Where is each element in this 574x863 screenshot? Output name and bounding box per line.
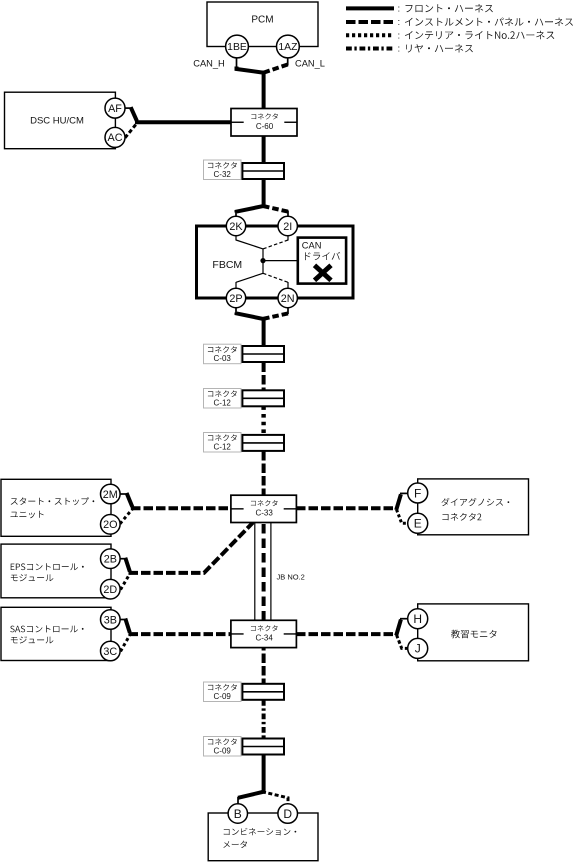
CAN driver X mark <box>315 265 332 280</box>
connector C-03 symbol <box>242 346 284 362</box>
pin E <box>408 513 428 533</box>
svg-text:2D: 2D <box>103 584 117 596</box>
FBCM 2K inner stub <box>235 235 237 241</box>
svg-text:AC: AC <box>108 132 123 144</box>
pin 2O <box>101 515 121 535</box>
PCM box <box>207 2 318 47</box>
wire 3B stub <box>121 619 127 621</box>
pin B <box>228 804 247 823</box>
label C-12 konekuta <box>208 434 237 441</box>
DSC HU/CM box <box>5 92 116 149</box>
diagnosis connector box <box>418 479 529 535</box>
wire B branch <box>238 792 265 798</box>
training monitor box <box>418 604 529 661</box>
svg-text:PCM: PCM <box>251 14 273 25</box>
SAS text line1 <box>10 625 83 632</box>
svg-text:C-12: C-12 <box>214 398 232 407</box>
wire split to 2K <box>237 206 266 213</box>
legend rear harness text <box>406 44 473 52</box>
FBCM center line <box>262 249 264 274</box>
wire H stub <box>400 618 408 620</box>
label box C-03 <box>204 344 242 364</box>
wire 2I stub <box>287 211 289 218</box>
connector C-32 symbol <box>242 163 284 179</box>
label C-03 konekuta <box>208 346 237 353</box>
svg-text::: : <box>398 17 401 28</box>
legend interior light text <box>405 31 554 39</box>
legend interior light line <box>346 33 394 37</box>
FBCM 2N inner stub <box>287 282 289 289</box>
svg-text:2P: 2P <box>229 293 242 305</box>
FBCM node to CAN driver <box>263 260 298 262</box>
svg-text:B: B <box>234 807 242 821</box>
SAS text line2 <box>11 636 54 643</box>
wire junction to C-60 <box>262 71 266 111</box>
pin 2B <box>101 549 121 569</box>
legend instrument panel line <box>346 20 394 24</box>
CAN driver jp text <box>305 252 340 260</box>
pin 2K <box>226 216 245 235</box>
pin 1AZ <box>277 35 300 58</box>
wire C-34 to C-09 dashed <box>262 648 266 684</box>
wire 2O branch dotted <box>120 509 133 524</box>
label C-32 konekuta <box>208 162 237 169</box>
wire CAN_L branch dashed <box>264 65 288 73</box>
pin 3B <box>101 610 121 630</box>
svg-text::: : <box>398 44 401 55</box>
combination meter box <box>208 813 318 861</box>
label C-09 konekuta <box>208 684 237 691</box>
wire 2B stub <box>121 558 127 560</box>
pin H <box>408 609 428 629</box>
wire 3C branch dotted <box>121 635 131 652</box>
svg-text:C-33: C-33 <box>255 509 273 518</box>
combi text line1 <box>224 828 297 836</box>
pin J <box>408 638 428 658</box>
wire AC branch dashed <box>125 123 138 138</box>
JB channel right <box>270 522 272 621</box>
label box C-12 <box>204 433 242 453</box>
svg-text:CAN: CAN <box>302 240 322 250</box>
svg-text:C-09: C-09 <box>214 746 232 755</box>
connector C-12 symbol <box>242 435 284 451</box>
wire H branch <box>396 620 401 636</box>
FBCM 2I inner stub <box>287 235 289 241</box>
svg-text:C-03: C-03 <box>214 354 232 363</box>
CAN driver box <box>298 238 346 284</box>
training monitor text <box>451 630 497 639</box>
wire DSC to C-60 <box>135 120 232 124</box>
wire 2M branch <box>127 493 133 507</box>
diagnosis text line1 <box>442 498 510 506</box>
wire SAS to C-34 dashed <box>129 632 232 636</box>
connector C-09 symbol <box>242 739 284 755</box>
svg-text:D: D <box>283 807 292 821</box>
wire C-12 to C-12 dotted <box>261 406 265 435</box>
C-60 konekuta text <box>251 113 278 119</box>
label box C-32 <box>204 160 242 180</box>
wire 2N stub <box>287 307 289 314</box>
label C-09 konekuta <box>208 738 237 745</box>
svg-text:E: E <box>414 517 422 531</box>
wire C-09 to junction <box>262 754 266 793</box>
svg-text:C-12: C-12 <box>214 442 232 451</box>
FBCM inner left bottom <box>236 273 263 282</box>
svg-text:2O: 2O <box>103 519 117 531</box>
wire C-60 to C-32 <box>262 135 266 165</box>
wire C-03 to C-12 dashed <box>262 363 266 391</box>
wire C-12 to C-33 dashed <box>262 451 266 496</box>
EPS text line1 <box>11 563 84 570</box>
FBCM inner right bottom dashed <box>263 273 288 282</box>
svg-text:C-09: C-09 <box>214 692 232 701</box>
pin 2I <box>278 216 297 235</box>
wire 2P branch <box>237 313 266 320</box>
svg-text:H: H <box>413 612 422 626</box>
combi text line2 <box>223 841 247 848</box>
svg-text:DSC HU/CM: DSC HU/CM <box>30 116 84 127</box>
wire J branch dashed <box>397 635 409 649</box>
FBCM box <box>197 226 354 298</box>
wire 2D branch dotted <box>121 574 131 590</box>
connector C-09 symbol <box>242 684 284 700</box>
svg-text:3C: 3C <box>103 646 117 658</box>
svg-text:C-60: C-60 <box>256 122 274 131</box>
start-stop text line1 <box>11 497 95 505</box>
wire CAN_H branch <box>237 67 263 73</box>
C-33 konekuta text <box>251 500 278 506</box>
start-stop text line2 <box>11 511 44 518</box>
pin 3C <box>101 641 121 661</box>
connector C-60 box <box>231 109 297 137</box>
svg-text:2M: 2M <box>103 489 118 501</box>
wire 2P stub <box>235 307 237 314</box>
wire C-33 to diag dashed <box>296 506 397 510</box>
wire junction to C-03 <box>262 318 266 348</box>
diagnosis text line2 <box>442 513 481 521</box>
svg-text:CAN_H: CAN_H <box>193 59 225 69</box>
wire 3B branch <box>125 619 130 633</box>
wire 1AZ stub <box>287 58 289 66</box>
svg-text:CAN_L: CAN_L <box>295 59 325 69</box>
svg-text:F: F <box>414 486 421 500</box>
wire F branch <box>396 494 401 510</box>
SAS module box <box>1 607 111 660</box>
pin 2P <box>226 288 245 307</box>
label box C-09 <box>204 682 242 702</box>
C-34 konekuta text <box>251 625 278 631</box>
svg-text:C-34: C-34 <box>255 634 273 643</box>
wire 2K stub <box>235 211 237 218</box>
FBCM inner right top dashed <box>263 240 288 249</box>
wire AF branch <box>131 107 137 121</box>
svg-text:1AZ: 1AZ <box>278 42 298 53</box>
wire C-32 to split <box>262 178 266 207</box>
pin AF <box>105 98 125 118</box>
wire C-09 to C-09 dashdot <box>262 700 266 739</box>
pin D <box>278 804 298 824</box>
legend instrument panel text <box>405 18 573 26</box>
svg-text:JB NO.2: JB NO.2 <box>277 573 305 582</box>
wire 2B branch <box>125 558 130 572</box>
FBCM junction node <box>260 258 265 263</box>
wire split to 2I dashed <box>263 206 288 212</box>
svg-text:2K: 2K <box>229 221 243 233</box>
FBCM 2P inner stub <box>235 282 237 289</box>
EPS text line2 <box>11 574 54 581</box>
connector C-12 symbol <box>242 390 284 406</box>
pin 2N <box>278 288 297 307</box>
pin 1BE <box>226 35 249 58</box>
legend front harness line <box>346 6 394 10</box>
pin F <box>408 483 428 503</box>
svg-text::: : <box>398 30 401 41</box>
legend front harness text <box>406 4 493 12</box>
EPS module box <box>1 544 111 598</box>
FBCM inner left top <box>236 240 263 249</box>
wire F stub <box>400 492 408 494</box>
start-stop unit box <box>1 479 111 536</box>
svg-text:FBCM: FBCM <box>212 259 242 271</box>
wire EPS to C-33 dashed <box>129 523 254 573</box>
pin 2D <box>101 579 121 599</box>
JB channel left <box>254 522 256 621</box>
wire AF stub <box>125 107 132 109</box>
svg-text:3B: 3B <box>104 614 117 626</box>
svg-text:2I: 2I <box>283 221 292 233</box>
svg-text:2B: 2B <box>104 554 117 566</box>
svg-text:2N: 2N <box>281 293 295 305</box>
svg-text:AF: AF <box>108 103 122 115</box>
connector C-33 box <box>231 495 297 522</box>
svg-text::: : <box>398 4 401 15</box>
wire 2N branch dashed <box>263 313 288 319</box>
connector C-34 box <box>231 620 297 647</box>
wire unit to C-33 dashed <box>131 506 232 510</box>
svg-text:1BE: 1BE <box>227 42 247 53</box>
wire C-34 to monitor dashed <box>296 632 397 636</box>
legend rear harness line <box>346 47 394 51</box>
wire B stub <box>237 797 239 805</box>
label box C-09 <box>204 737 242 757</box>
wire JB bus dashed <box>262 524 266 621</box>
wire D branch dashed <box>262 792 288 805</box>
pin 2M <box>101 484 121 504</box>
wire E branch dotted <box>397 510 409 524</box>
label box C-12 <box>204 389 242 409</box>
label C-12 konekuta <box>208 390 237 397</box>
svg-text:C-32: C-32 <box>214 170 232 179</box>
wire 2M stub <box>120 493 128 495</box>
wire 1BE stub <box>236 58 238 68</box>
svg-text:J: J <box>415 642 421 656</box>
pin AC <box>105 127 125 147</box>
